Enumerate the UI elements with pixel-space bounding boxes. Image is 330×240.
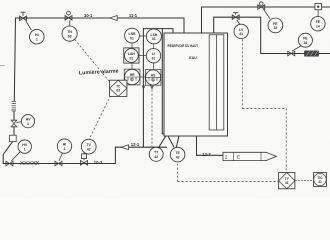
arrowhead on dashed line <box>150 85 153 89</box>
svg-text:FE: FE <box>303 37 308 41</box>
flow arrow 12-1 <box>121 145 128 150</box>
svg-text:12-1: 12-1 <box>131 142 140 147</box>
wire gauge column top header <box>143 29 173 33</box>
svg-text:42: 42 <box>87 147 91 151</box>
svg-text:1: 1 <box>36 37 38 41</box>
valve V4 bottom left <box>6 152 20 166</box>
edge tick artifact <box>0 65 5 67</box>
svg-text:14: 14 <box>316 25 320 29</box>
svg-text:LAH: LAH <box>128 52 136 56</box>
instrument TN63 <box>62 20 77 41</box>
instrument LI01 <box>146 49 160 63</box>
svg-text:HV: HV <box>22 143 28 147</box>
wire left vertical pipe <box>14 18 16 135</box>
valve V2 with round actuator <box>65 11 72 20</box>
wire pipe 12-1 <box>115 146 166 148</box>
svg-text:E: E <box>237 155 240 160</box>
svg-text:Lumière alarme: Lumière alarme <box>79 68 119 76</box>
instrument HV1 mid left <box>21 115 34 128</box>
instrument FE15 <box>264 9 283 33</box>
svg-text:2: 2 <box>225 155 228 160</box>
svg-text:63: 63 <box>116 89 120 93</box>
svg-text:41: 41 <box>318 180 322 184</box>
wire riser 10-2 to 12-1 <box>114 147 116 163</box>
flex joint on bottom pipe <box>21 161 39 165</box>
controller TC63 diamond <box>110 80 127 96</box>
svg-text:TV: TV <box>86 143 91 147</box>
svg-text:HV: HV <box>26 118 32 122</box>
pump box on left vertical <box>10 135 17 141</box>
tank internal standpipe <box>209 35 224 130</box>
svg-text:2: 2 <box>64 147 66 151</box>
signal TE42 to TY41 dashed <box>178 164 279 182</box>
flag 2-E continuation <box>223 152 277 160</box>
flex joint on left vertical <box>12 102 16 111</box>
valve V1 with T handle <box>20 12 27 20</box>
instrument HI1 top left <box>26 21 44 44</box>
svg-text:10-2: 10-2 <box>94 160 103 165</box>
arrowhead on standpipe line <box>142 85 145 89</box>
wire pipe B with drop <box>214 17 330 53</box>
svg-text:1: 1 <box>24 147 26 151</box>
control valve TV42 body <box>81 153 88 165</box>
instrument LSH01 <box>146 29 161 44</box>
svg-text:LNR: LNR <box>129 32 137 36</box>
tank T-01 outline <box>164 33 228 136</box>
wire top feed pipe 10-1/11-1 <box>16 17 185 19</box>
controller TIC41 <box>314 173 327 187</box>
svg-text:01: 01 <box>130 56 134 60</box>
signal LV41 to TY41 dashed run <box>242 39 286 172</box>
wire pipe A top right <box>202 7 330 33</box>
signal HNS to TT42 dashed <box>151 86 153 147</box>
svg-text:11-1: 11-1 <box>129 13 138 18</box>
instrument HR01 <box>124 69 140 85</box>
instrument FE16 <box>292 33 312 51</box>
wire gauge column drain diagonal <box>162 134 174 147</box>
wire left jog to bottom pipe <box>3 142 12 164</box>
instrument LNR01 <box>125 28 140 43</box>
instrument HS01 <box>145 70 161 86</box>
valve V7 with round actuator <box>258 2 265 10</box>
svg-text:HS: HS <box>151 73 156 77</box>
wire gauge column left <box>142 29 144 147</box>
relay TY41 diamond <box>279 173 295 189</box>
wire gauge column right <box>161 29 163 134</box>
svg-text:41: 41 <box>239 32 243 36</box>
instrument TE42 <box>170 147 185 162</box>
svg-text:1: 1 <box>27 122 29 126</box>
flow arrow 11-1 <box>110 16 118 21</box>
valve V8 with T handle <box>232 13 240 25</box>
svg-text:EAU: EAU <box>189 56 197 60</box>
instrument FE14 <box>311 10 325 31</box>
svg-text:15: 15 <box>274 26 278 30</box>
svg-text:HR: HR <box>130 73 135 77</box>
signal TC63 to TV42 dashed <box>89 96 110 140</box>
instrument HI2 <box>57 139 71 153</box>
wire pipe 12-7 to flag <box>197 136 223 155</box>
svg-text:LV: LV <box>239 28 244 32</box>
svg-text:RÉSERVOIR DU HAUT: RÉSERVOIR DU HAUT <box>168 43 199 48</box>
svg-text:01: 01 <box>152 37 156 41</box>
svg-text:FE: FE <box>273 22 278 26</box>
instrument TT42 <box>149 147 163 161</box>
svg-text:HI: HI <box>35 33 39 37</box>
instrument LAH01 square <box>124 48 139 63</box>
instrument LV41 <box>234 24 248 38</box>
instrument HV1 bottom <box>18 140 31 153</box>
signal TE63 to TC63 dashed <box>75 40 110 83</box>
svg-text:42: 42 <box>154 155 158 159</box>
svg-text:41: 41 <box>285 181 289 185</box>
svg-text:12-7: 12-7 <box>202 152 211 157</box>
svg-text:FE: FE <box>316 20 321 24</box>
node stub LNR-LSH <box>132 36 154 77</box>
svg-text:63: 63 <box>68 34 72 38</box>
svg-text:01: 01 <box>130 36 134 40</box>
valve V9 <box>288 51 295 56</box>
wire bottom pipe 10-2 <box>3 163 115 165</box>
svg-text:01: 01 <box>152 57 156 61</box>
wire tank fill drop <box>183 18 185 33</box>
svg-text:16: 16 <box>304 41 308 45</box>
valve V3 on vertical pipe <box>11 120 21 127</box>
svg-text:01: 01 <box>130 78 134 82</box>
svg-text:LSH: LSH <box>151 33 158 37</box>
svg-text:01: 01 <box>151 78 155 82</box>
svg-text:HI: HI <box>63 143 67 147</box>
svg-text:TN: TN <box>67 30 72 34</box>
valve V5 <box>55 153 63 166</box>
instrument TV42 <box>81 139 96 154</box>
svg-text:42: 42 <box>176 155 180 159</box>
inline element square with dot <box>315 4 322 10</box>
signal TY41 to TIC41 link <box>295 179 313 181</box>
svg-text:TE: TE <box>175 151 180 155</box>
svg-text:10-1: 10-1 <box>84 13 93 18</box>
wire TT42 tap from tank bottom <box>159 136 166 147</box>
svg-text:LI: LI <box>152 52 155 56</box>
wire TE42 tap from tank bottom <box>176 136 178 147</box>
heater element hatched <box>305 51 319 56</box>
